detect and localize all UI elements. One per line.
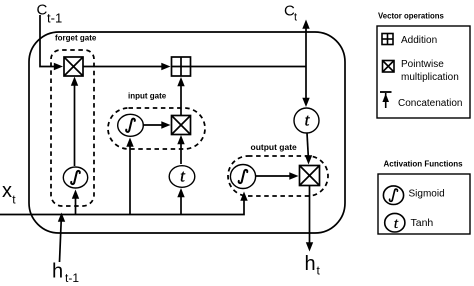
wire forget sigmoid to forget mult xyxy=(74,82,76,166)
svg-text:Sigmoid: Sigmoid xyxy=(409,189,445,200)
svg-text:Pointwise: Pointwise xyxy=(401,59,444,70)
svg-text:Vector operations: Vector operations xyxy=(378,12,445,21)
svg-text:forget gate: forget gate xyxy=(55,34,97,43)
wire tanh2 to output mult xyxy=(307,133,309,160)
arrowhead into forget mult bottom xyxy=(71,77,78,86)
arrowhead into tanh2 xyxy=(302,98,309,107)
pointwise mult o (output gate) xyxy=(300,166,320,186)
svg-text:multiplication: multiplication xyxy=(401,72,459,83)
wire input sigmoid to input mult xyxy=(143,124,167,126)
legend vector operations box xyxy=(377,26,470,118)
tanh right xyxy=(294,108,319,133)
arrowhead into input mult bottom xyxy=(177,135,184,144)
svg-text:Tanh: Tanh xyxy=(411,217,434,229)
legend sigmoid icon xyxy=(383,186,403,205)
arrowhead into output sigmoid xyxy=(240,192,247,201)
wire adder to C junction xyxy=(191,66,307,68)
arrowhead into forget mult xyxy=(54,63,63,70)
legend pointwise mult icon xyxy=(383,61,395,73)
arrowhead into input sigmoid xyxy=(126,138,133,147)
sigmoid input xyxy=(118,114,144,136)
arrowhead into tanh bottom xyxy=(177,188,184,197)
arrowhead into forget sigmoid xyxy=(72,190,79,199)
arrowhead into adder bottom xyxy=(177,77,184,86)
wire output sigmoid to output mult xyxy=(256,175,295,177)
wire x_t input line xyxy=(0,196,244,215)
sigmoid glyph forget xyxy=(71,171,80,184)
legend addition icon xyxy=(382,34,393,45)
svg-text:output gate: output gate xyxy=(251,142,298,152)
arrowhead into output mult top xyxy=(305,155,312,164)
wire C_t-1 input xyxy=(40,15,58,67)
forget gate dashed box xyxy=(51,50,94,206)
svg-text:t-1: t-1 xyxy=(47,11,62,26)
svg-text:Concatenation: Concatenation xyxy=(398,98,463,109)
addition node xyxy=(172,57,191,76)
arrowhead C_t up xyxy=(302,20,309,29)
legend activation functions box xyxy=(378,174,470,234)
pointwise mult i (input gate) xyxy=(172,116,191,135)
arrowhead into input mult left xyxy=(161,121,170,128)
svg-text:input gate: input gate xyxy=(128,92,167,101)
wire h_t-1 input xyxy=(60,218,62,262)
svg-text:t: t xyxy=(294,12,297,24)
legend tanh icon xyxy=(385,213,405,232)
svg-text:h: h xyxy=(305,253,316,275)
sigmoid forget xyxy=(63,167,87,188)
pointwise mult f (forget gate) xyxy=(64,57,83,76)
wire x_t to input sigmoid xyxy=(129,142,131,215)
wire tanh to input mult xyxy=(180,140,182,164)
wire x_t to forget sigmoid xyxy=(75,194,77,215)
svg-text:t: t xyxy=(180,167,186,186)
wire output mult to h_t xyxy=(309,186,311,247)
svg-text:t: t xyxy=(394,216,399,232)
arrowhead h_t-1 concat xyxy=(58,213,65,222)
svg-text:h: h xyxy=(52,261,63,283)
arrowhead into adder left xyxy=(161,63,170,70)
wire forget-mult to adder xyxy=(83,66,166,68)
wire input mult to adder xyxy=(180,82,182,116)
svg-text:t-1: t-1 xyxy=(65,271,79,285)
wire x_t to tanh xyxy=(180,193,182,215)
sigmoid glyph output xyxy=(239,170,248,183)
svg-text:t: t xyxy=(317,264,321,278)
svg-text:t: t xyxy=(305,111,311,130)
legend concatenation icon xyxy=(380,92,392,108)
sigmoid glyph input xyxy=(126,119,135,132)
tanh mid xyxy=(169,166,195,188)
LSTM cell body xyxy=(29,32,345,233)
arrowhead into output mult left xyxy=(289,172,298,179)
output gate dashed box xyxy=(228,156,328,196)
svg-text:x: x xyxy=(2,180,12,202)
wire C junction down to tanh xyxy=(305,67,307,102)
input gate dashed box xyxy=(108,108,205,149)
svg-text:Activation Functions: Activation Functions xyxy=(384,160,464,169)
svg-text:t: t xyxy=(12,193,16,207)
wire C_t output up xyxy=(305,27,307,67)
arrowhead h_t down xyxy=(306,242,313,251)
svg-text:Addition: Addition xyxy=(401,35,437,46)
svg-text:C: C xyxy=(37,2,48,19)
sigmoid output xyxy=(230,165,255,189)
